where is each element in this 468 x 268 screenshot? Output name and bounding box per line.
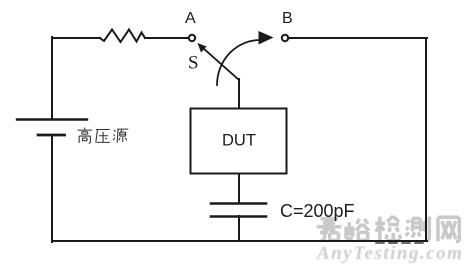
label 高 xyxy=(77,128,92,144)
wire battery to bottom-left corner xyxy=(51,135,53,242)
wire left vertical upper xyxy=(51,37,53,119)
svg-text:C=200pF: C=200pF xyxy=(280,201,355,221)
svg-text:B: B xyxy=(282,10,293,27)
node B terminal xyxy=(282,35,288,41)
switch S arm wire xyxy=(203,48,239,80)
wire top-left horizontal xyxy=(52,37,100,39)
capacitor C1 bottom plate xyxy=(211,215,266,218)
wire switch to DUT xyxy=(238,79,240,108)
watermark 检 xyxy=(375,216,400,241)
wire bottom horizontal xyxy=(52,240,427,242)
capacitor C1 top plate xyxy=(211,202,266,205)
svg-text:S: S xyxy=(188,53,199,74)
node A terminal xyxy=(189,35,195,41)
watermark 测 xyxy=(406,217,430,241)
resistor R1 xyxy=(100,30,145,43)
watermark AnyTesting.com xyxy=(316,243,463,264)
wire resistor to node A xyxy=(145,37,189,39)
switch S arm arrowhead at node A xyxy=(198,43,207,53)
wire right vertical xyxy=(425,38,427,241)
battery BT1 short plate xyxy=(38,134,65,137)
svg-text:DUT: DUT xyxy=(222,132,256,150)
svg-text:AnyTesting.com: AnyTesting.com xyxy=(316,243,463,264)
svg-text:A: A xyxy=(185,10,196,27)
label 源 xyxy=(113,129,128,143)
switch throw arc xyxy=(217,40,260,85)
watermark 网 xyxy=(438,217,459,241)
battery BT1 long plate xyxy=(17,118,87,120)
switch throw arc arrowhead at node B xyxy=(259,31,274,45)
wire capacitor to bottom xyxy=(238,216,240,241)
artifact dashes under bottom wire xyxy=(376,242,426,244)
watermark 峪 xyxy=(346,219,369,240)
label 压 xyxy=(96,129,110,142)
wire node B to top-right corner xyxy=(288,37,427,39)
watermark 嘉 xyxy=(317,216,342,241)
DUT box U1 xyxy=(191,109,287,174)
wire DUT to capacitor xyxy=(238,174,240,203)
